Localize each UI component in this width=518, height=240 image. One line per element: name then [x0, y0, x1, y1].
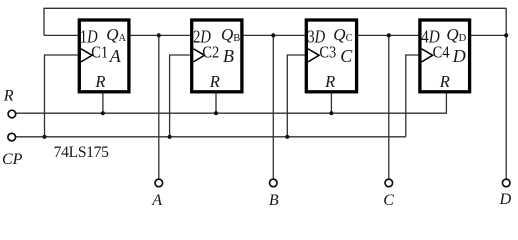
svg-text:C4: C4 — [433, 43, 450, 62]
pin label C3 — [319, 43, 336, 62]
junction R / U1 — [101, 111, 105, 115]
svg-text:C1: C1 — [91, 43, 108, 62]
pin label 1D — [80, 27, 98, 47]
wire R pin U1 — [102, 91, 104, 113]
label 74LS175 — [54, 144, 110, 161]
label B of U2 — [223, 46, 234, 66]
wire R bus — [16, 91, 447, 113]
svg-text:74LS175: 74LS175 — [54, 144, 110, 161]
svg-text:C: C — [383, 192, 394, 209]
svg-text:R: R — [209, 72, 220, 91]
junction QC / C — [387, 33, 391, 37]
flip-flop U4 body — [420, 20, 470, 92]
pin label R of U2 — [209, 72, 220, 91]
svg-text:D: D — [499, 189, 512, 208]
flip-flop U3 body — [306, 20, 356, 92]
svg-text:C2: C2 — [202, 43, 219, 62]
label output D — [499, 189, 512, 208]
junction QB / B — [271, 33, 275, 37]
svg-text:C: C — [340, 46, 353, 66]
wire C3 clock branch — [287, 55, 307, 137]
terminal output D — [502, 179, 510, 187]
clock triangle U3 — [308, 49, 319, 62]
pin label C1 — [91, 43, 108, 62]
pin label QD — [446, 25, 466, 44]
pin label QA — [106, 25, 126, 44]
svg-text:R: R — [3, 88, 14, 105]
terminal R input — [8, 110, 16, 118]
wire QC to 4D — [356, 34, 420, 36]
junction QA / A — [157, 33, 161, 37]
svg-text:R: R — [94, 72, 105, 91]
svg-text:C3: C3 — [319, 43, 336, 62]
wire output A drop — [158, 35, 160, 179]
junction CP / C2 — [168, 135, 172, 139]
svg-text:B: B — [269, 192, 279, 209]
wire C2 clock branch — [170, 55, 193, 137]
wire CP bus — [16, 136, 406, 138]
terminal output C — [385, 179, 393, 187]
flip-flop U2 body — [192, 20, 242, 92]
clock triangle U1 — [81, 49, 92, 62]
svg-text:B: B — [223, 46, 234, 66]
junction CP / C1 — [42, 135, 46, 139]
pin label R of U1 — [94, 72, 105, 91]
wire R pin U3 — [330, 91, 332, 113]
junction R / U2 — [214, 111, 218, 115]
svg-text:R: R — [439, 72, 450, 91]
wire feedback from QD to 1D (top) — [44, 8, 506, 35]
wire QB to 3D — [242, 34, 307, 36]
wire C1 clock branch — [45, 55, 80, 137]
junction QD / D — [504, 33, 508, 37]
wire output C drop — [388, 35, 390, 179]
svg-text:CP: CP — [2, 151, 23, 168]
wire 1D input — [44, 34, 80, 36]
pin label C2 — [202, 43, 219, 62]
pin label QB — [221, 25, 240, 44]
terminal CP input — [8, 133, 16, 141]
pin label R of U3 — [324, 72, 335, 91]
wire R pin U2 — [215, 91, 217, 113]
pin label QC — [333, 25, 352, 44]
label R input — [3, 88, 14, 105]
clock triangle U2 — [193, 49, 204, 62]
svg-text:D: D — [452, 46, 466, 66]
label CP input — [2, 151, 23, 168]
svg-text:R: R — [324, 72, 335, 91]
wire QA to 2D — [128, 34, 192, 36]
flip-flop U1 body — [79, 20, 129, 92]
svg-text:A: A — [151, 192, 162, 209]
label output C — [383, 192, 394, 209]
pin label 2D — [193, 27, 211, 47]
label A of U1 — [109, 46, 122, 66]
label D of U4 — [452, 46, 466, 66]
pin label 4D — [421, 27, 440, 47]
junction CP / C3 — [285, 135, 289, 139]
junction R / U3 — [329, 111, 333, 115]
terminal output A — [155, 179, 163, 187]
clock triangle U4 — [422, 49, 433, 62]
label C of U3 — [340, 46, 353, 66]
wire output B drop — [272, 35, 274, 179]
terminal output B — [270, 179, 278, 187]
label output B — [269, 192, 279, 209]
wire output D drop — [505, 8, 507, 179]
pin label R of U4 — [439, 72, 450, 91]
wire C4 clock branch — [406, 55, 421, 137]
label output A — [151, 192, 162, 209]
svg-text:A: A — [109, 46, 122, 66]
wire QD output — [469, 34, 506, 36]
pin label 3D — [307, 27, 325, 47]
pin label C4 — [433, 43, 450, 62]
